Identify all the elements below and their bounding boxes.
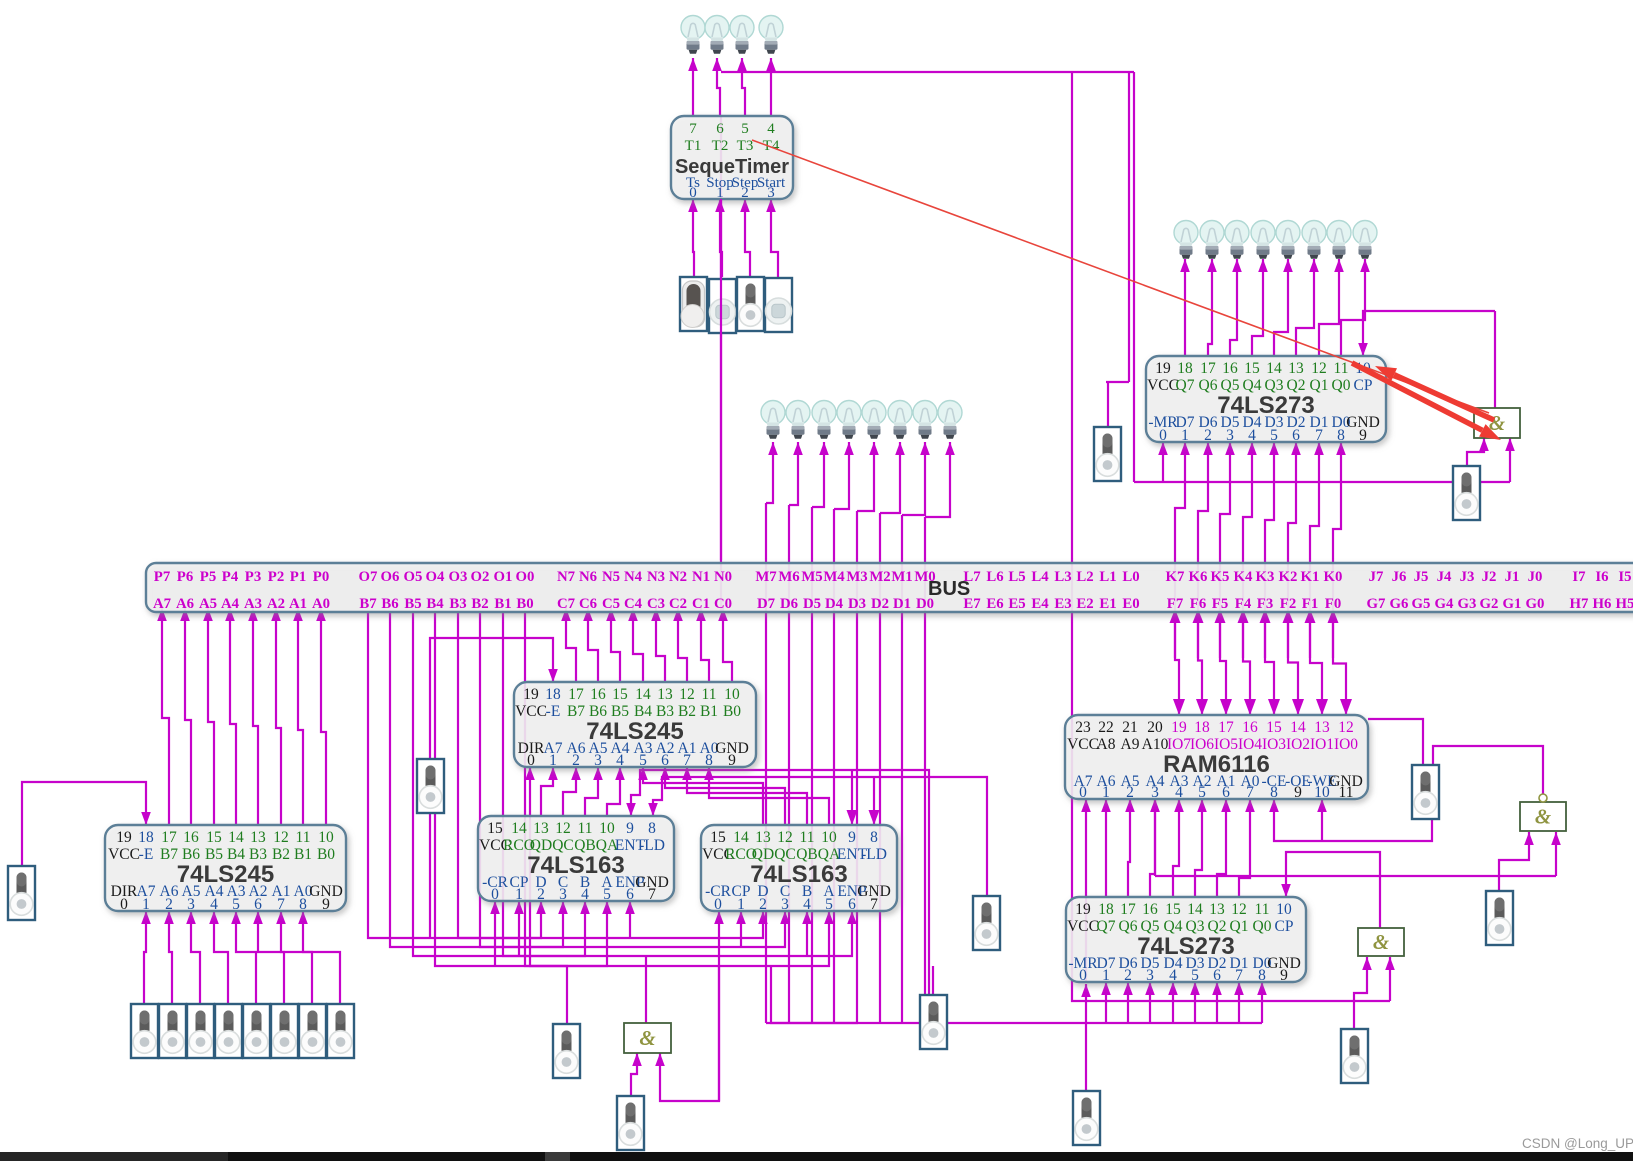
svg-text:15: 15 [612,686,628,703]
svg-text:10: 10 [318,829,334,846]
svg-text:F0: F0 [1325,596,1341,612]
svg-text:7: 7 [277,896,285,913]
svg-text:6: 6 [1292,427,1300,444]
svg-text:10: 10 [821,829,837,846]
svg-text:8: 8 [648,820,656,837]
svg-text:D6: D6 [780,596,798,612]
svg-text:L6: L6 [986,569,1003,585]
svg-text:O2: O2 [471,569,490,585]
svg-text:2: 2 [537,886,545,903]
svg-text:0: 0 [714,896,722,913]
svg-text:J3: J3 [1460,569,1475,585]
svg-text:14: 14 [511,820,527,837]
svg-text:13: 13 [250,829,266,846]
svg-text:L4: L4 [1031,569,1049,585]
svg-text:17: 17 [1120,901,1136,918]
svg-text:P1: P1 [290,569,306,585]
svg-text:Q6: Q6 [1119,918,1138,935]
svg-text:IO2: IO2 [1286,736,1310,753]
svg-text:14: 14 [1266,360,1282,377]
svg-text:15: 15 [1244,360,1260,377]
svg-text:0: 0 [689,185,697,201]
svg-text:23: 23 [1075,719,1091,736]
svg-text:15: 15 [1165,901,1181,918]
svg-text:N4: N4 [624,569,643,585]
svg-text:E2: E2 [1076,596,1093,612]
svg-text:18: 18 [1194,719,1210,736]
svg-text:1: 1 [737,896,745,913]
svg-text:L0: L0 [1122,569,1139,585]
svg-text:15: 15 [710,829,726,846]
svg-text:L2: L2 [1076,569,1093,585]
svg-text:N2: N2 [669,569,687,585]
svg-text:D7: D7 [757,596,776,612]
svg-text:M1: M1 [891,569,912,585]
svg-text:CP: CP [1275,918,1294,935]
svg-text:11: 11 [578,820,593,837]
svg-text:J1: J1 [1505,569,1520,585]
svg-text:1: 1 [1102,967,1110,984]
svg-text:&: & [1373,930,1390,954]
svg-text:C2: C2 [669,596,687,612]
svg-text:G1: G1 [1503,596,1522,612]
svg-text:K1: K1 [1301,569,1320,585]
svg-text:3: 3 [781,896,789,913]
svg-text:4: 4 [1169,967,1177,984]
svg-text:4: 4 [616,752,624,769]
svg-text:15: 15 [487,820,503,837]
svg-text:C1: C1 [692,596,710,612]
svg-text:O1: O1 [494,569,513,585]
svg-text:9: 9 [1359,427,1367,444]
svg-text:CSDN @Long_UP: CSDN @Long_UP [1522,1136,1633,1151]
svg-text:E3: E3 [1054,596,1071,612]
svg-text:P6: P6 [177,569,193,585]
svg-text:9: 9 [1294,784,1302,801]
svg-text:F6: F6 [1190,596,1206,612]
svg-text:10: 10 [1276,901,1292,918]
svg-text:L3: L3 [1054,569,1071,585]
svg-text:P5: P5 [200,569,216,585]
svg-text:6: 6 [626,886,634,903]
svg-text:17: 17 [568,686,584,703]
svg-text:F1: F1 [1302,596,1318,612]
svg-text:M6: M6 [778,569,799,585]
svg-text:6: 6 [254,896,262,913]
svg-text:T1: T1 [685,138,702,154]
svg-text:9: 9 [848,829,856,846]
svg-text:12: 12 [1311,360,1327,377]
svg-text:5: 5 [1198,784,1206,801]
svg-text:8: 8 [870,829,878,846]
svg-text:4: 4 [1175,784,1183,801]
svg-text:0: 0 [1079,784,1087,801]
svg-text:O0: O0 [516,569,535,585]
svg-text:K5: K5 [1211,569,1230,585]
svg-text:J2: J2 [1482,569,1497,585]
svg-text:T3: T3 [737,138,754,154]
svg-text:7: 7 [1246,784,1254,801]
svg-text:10: 10 [599,820,615,837]
svg-text:N0: N0 [714,569,732,585]
svg-text:Q0: Q0 [1253,918,1272,935]
svg-text:C4: C4 [624,596,643,612]
svg-text:A5: A5 [199,596,217,612]
svg-text:E6: E6 [986,596,1003,612]
svg-text:Q7: Q7 [1097,918,1116,935]
svg-text:F4: F4 [1235,596,1252,612]
svg-text:14: 14 [635,686,651,703]
svg-text:G6: G6 [1390,596,1409,612]
svg-text:17: 17 [161,829,177,846]
svg-text:B1: B1 [700,703,718,720]
svg-text:A9: A9 [1121,736,1140,753]
svg-text:1: 1 [549,752,557,769]
svg-text:2: 2 [572,752,580,769]
svg-text:J5: J5 [1414,569,1429,585]
svg-text:5: 5 [603,886,611,903]
svg-text:F7: F7 [1167,596,1184,612]
svg-text:3: 3 [1151,784,1159,801]
svg-text:VCC: VCC [1147,377,1179,394]
svg-text:19: 19 [1075,901,1091,918]
svg-text:B3: B3 [449,596,466,612]
svg-text:B5: B5 [404,596,421,612]
svg-text:11: 11 [702,686,717,703]
svg-text:13: 13 [533,820,549,837]
svg-text:H7: H7 [1570,596,1590,612]
svg-text:14: 14 [1290,719,1306,736]
svg-text:20: 20 [1147,719,1163,736]
svg-text:H5: H5 [1616,596,1633,612]
svg-text:A6: A6 [176,596,194,612]
svg-text:2: 2 [759,896,767,913]
svg-text:9: 9 [626,820,634,837]
svg-text:E0: E0 [1122,596,1139,612]
svg-text:1: 1 [1102,784,1110,801]
svg-text:B1: B1 [294,846,312,863]
svg-text:B7: B7 [567,703,585,720]
svg-text:G3: G3 [1458,596,1477,612]
svg-text:22: 22 [1098,719,1114,736]
svg-text:11: 11 [296,829,311,846]
svg-text:J6: J6 [1392,569,1407,585]
svg-text:B0: B0 [723,703,741,720]
svg-text:P2: P2 [268,569,284,585]
svg-text:A0: A0 [312,596,330,612]
svg-text:2: 2 [1204,427,1212,444]
svg-text:8: 8 [705,752,713,769]
svg-text:9: 9 [322,896,330,913]
svg-text:K2: K2 [1279,569,1298,585]
svg-text:2: 2 [1124,967,1132,984]
svg-text:C7: C7 [557,596,576,612]
svg-text:B0: B0 [516,596,533,612]
svg-text:16: 16 [1142,901,1158,918]
svg-text:12: 12 [1231,901,1247,918]
svg-text:D3: D3 [848,596,866,612]
svg-text:8: 8 [1258,967,1266,984]
svg-text:C6: C6 [579,596,597,612]
svg-text:18: 18 [1177,360,1193,377]
svg-text:C5: C5 [602,596,620,612]
svg-text:A1: A1 [289,596,307,612]
svg-text:B7: B7 [160,846,178,863]
svg-text:12: 12 [777,829,793,846]
svg-text:B7: B7 [359,596,377,612]
svg-text:13: 13 [657,686,673,703]
svg-text:11: 11 [1339,784,1354,801]
svg-text:P7: P7 [154,569,171,585]
svg-text:4: 4 [1248,427,1256,444]
svg-text:VCC: VCC [515,703,547,720]
svg-text:18: 18 [1098,901,1114,918]
svg-text:-LD: -LD [861,846,887,863]
svg-text:4: 4 [581,886,589,903]
svg-text:5: 5 [232,896,240,913]
svg-text:N3: N3 [647,569,665,585]
svg-text:18: 18 [138,829,154,846]
svg-text:17: 17 [1218,719,1234,736]
svg-text:M5: M5 [801,569,822,585]
svg-text:J7: J7 [1369,569,1384,585]
svg-text:16: 16 [1222,360,1238,377]
svg-text:11: 11 [800,829,815,846]
svg-text:6: 6 [848,896,856,913]
svg-text:P3: P3 [245,569,261,585]
svg-text:8: 8 [1270,784,1278,801]
svg-text:A2: A2 [267,596,285,612]
svg-text:15: 15 [1266,719,1282,736]
svg-text:E5: E5 [1008,596,1025,612]
svg-text:A8: A8 [1097,736,1116,753]
svg-text:13: 13 [1209,901,1225,918]
svg-text:6: 6 [1213,967,1221,984]
svg-text:VCC: VCC [108,846,140,863]
svg-text:7: 7 [1315,427,1323,444]
svg-text:-E: -E [139,846,154,863]
svg-text:9: 9 [728,752,736,769]
svg-text:O3: O3 [449,569,468,585]
svg-text:D2: D2 [871,596,889,612]
svg-text:3: 3 [1226,427,1234,444]
svg-text:6: 6 [1222,784,1230,801]
svg-text:A4: A4 [221,596,240,612]
svg-text:4: 4 [767,121,775,137]
svg-text:P4: P4 [222,569,239,585]
svg-text:6: 6 [661,752,669,769]
svg-text:D1: D1 [893,596,911,612]
svg-text:19: 19 [116,829,132,846]
svg-text:N5: N5 [602,569,620,585]
svg-text:G7: G7 [1367,596,1387,612]
svg-text:O4: O4 [426,569,446,585]
svg-text:5: 5 [1191,967,1199,984]
svg-text:8: 8 [1337,427,1345,444]
svg-text:E4: E4 [1031,596,1049,612]
svg-text:9: 9 [1280,967,1288,984]
svg-text:0: 0 [1159,427,1167,444]
svg-text:7: 7 [648,886,656,903]
svg-text:-LD: -LD [639,837,665,854]
svg-text:L5: L5 [1008,569,1025,585]
svg-text:I6: I6 [1595,569,1608,585]
svg-text:H6: H6 [1593,596,1612,612]
svg-text:17: 17 [1200,360,1216,377]
svg-text:16: 16 [1242,719,1258,736]
svg-text:5: 5 [741,121,749,137]
svg-text:B0: B0 [317,846,335,863]
svg-text:K0: K0 [1324,569,1343,585]
svg-text:G4: G4 [1435,596,1455,612]
svg-text:0: 0 [120,896,128,913]
svg-text:12: 12 [679,686,695,703]
svg-text:L1: L1 [1099,569,1116,585]
svg-text:2: 2 [1126,784,1134,801]
svg-text:O7: O7 [359,569,379,585]
svg-text:G0: G0 [1526,596,1545,612]
svg-text:CP: CP [1354,377,1373,394]
svg-text:M3: M3 [846,569,867,585]
svg-text:C0: C0 [714,596,732,612]
svg-text:19: 19 [523,686,539,703]
svg-text:13: 13 [1314,719,1330,736]
svg-text:IO1: IO1 [1310,736,1334,753]
svg-text:F5: F5 [1212,596,1228,612]
svg-text:D5: D5 [803,596,821,612]
svg-text:1: 1 [1181,427,1189,444]
svg-text:B6: B6 [381,596,398,612]
svg-text:N7: N7 [557,569,576,585]
svg-text:11: 11 [1334,360,1349,377]
svg-text:VCC: VCC [1067,736,1099,753]
svg-text:1: 1 [515,886,523,903]
svg-text:0: 0 [491,886,499,903]
svg-text:4: 4 [803,896,811,913]
svg-text:14: 14 [733,829,749,846]
svg-text:K7: K7 [1166,569,1186,585]
svg-text:E1: E1 [1099,596,1116,612]
svg-text:21: 21 [1122,719,1138,736]
svg-text:F3: F3 [1257,596,1273,612]
svg-text:O6: O6 [381,569,400,585]
svg-text:10: 10 [724,686,740,703]
svg-text:K3: K3 [1256,569,1275,585]
svg-text:M7: M7 [755,569,777,585]
svg-text:N1: N1 [692,569,710,585]
svg-text:A7: A7 [153,596,172,612]
svg-text:0: 0 [1079,967,1087,984]
svg-text:14: 14 [1187,901,1203,918]
svg-text:1: 1 [716,185,724,201]
svg-text:5: 5 [825,896,833,913]
svg-text:19: 19 [1155,360,1171,377]
svg-text:0: 0 [527,752,535,769]
svg-text:7: 7 [870,896,878,913]
svg-text:B4: B4 [426,596,444,612]
svg-text:B1: B1 [494,596,511,612]
svg-text:7: 7 [683,752,691,769]
svg-text:19: 19 [1171,719,1187,736]
svg-text:2: 2 [165,896,173,913]
svg-text:4: 4 [210,896,218,913]
svg-text:3: 3 [767,185,775,201]
svg-text:F2: F2 [1280,596,1296,612]
svg-text:13: 13 [755,829,771,846]
svg-text:K6: K6 [1189,569,1208,585]
svg-text:13: 13 [1288,360,1304,377]
svg-text:15: 15 [206,829,222,846]
svg-text:G5: G5 [1412,596,1431,612]
svg-text:T4: T4 [763,138,780,154]
svg-text:3: 3 [187,896,195,913]
svg-text:B2: B2 [471,596,488,612]
svg-text:5: 5 [1270,427,1278,444]
svg-text:7: 7 [689,121,697,137]
svg-text:T2: T2 [712,138,729,154]
svg-text:Q7: Q7 [1176,377,1195,394]
svg-text:Q6: Q6 [1199,377,1218,394]
svg-text:16: 16 [590,686,606,703]
svg-text:2: 2 [741,185,749,201]
svg-text:6: 6 [716,121,724,137]
svg-text:J0: J0 [1528,569,1543,585]
svg-text:C3: C3 [647,596,665,612]
svg-text:B2: B2 [272,846,290,863]
svg-text:3: 3 [594,752,602,769]
svg-text:14: 14 [228,829,244,846]
svg-text:-E: -E [546,703,561,720]
svg-text:M4: M4 [823,569,845,585]
svg-text:&: & [1535,805,1552,829]
svg-text:7: 7 [1235,967,1243,984]
svg-text:O5: O5 [404,569,423,585]
svg-text:K4: K4 [1234,569,1254,585]
svg-text:&: & [639,1026,656,1050]
svg-text:VCC: VCC [1067,918,1099,935]
svg-text:IO0: IO0 [1334,736,1358,753]
svg-text:D4: D4 [825,596,844,612]
svg-text:3: 3 [559,886,567,903]
svg-text:10: 10 [1314,784,1330,801]
svg-text:M2: M2 [869,569,890,585]
svg-text:P0: P0 [313,569,329,585]
svg-text:12: 12 [555,820,571,837]
svg-text:J4: J4 [1437,569,1452,585]
svg-text:12: 12 [1338,719,1354,736]
svg-text:8: 8 [299,896,307,913]
svg-text:11: 11 [1255,901,1270,918]
svg-text:3: 3 [1146,967,1154,984]
svg-text:Q0: Q0 [1332,377,1351,394]
svg-text:I7: I7 [1572,569,1586,585]
svg-text:G2: G2 [1480,596,1499,612]
svg-text:N6: N6 [579,569,597,585]
svg-text:1: 1 [142,896,150,913]
svg-text:5: 5 [639,752,647,769]
svg-text:18: 18 [545,686,561,703]
svg-text:BUS: BUS [928,578,970,600]
svg-text:12: 12 [273,829,289,846]
svg-text:16: 16 [183,829,199,846]
svg-text:I5: I5 [1618,569,1631,585]
svg-text:A3: A3 [244,596,262,612]
